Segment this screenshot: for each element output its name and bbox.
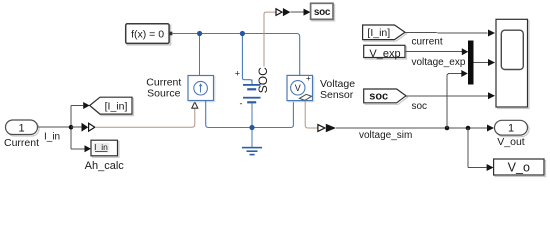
svg-text:soc: soc xyxy=(369,91,388,103)
svg-text:Ah_calc: Ah_calc xyxy=(85,160,125,172)
svg-text:voltage_exp: voltage_exp xyxy=(412,57,466,68)
svg-text:voltage_sim: voltage_sim xyxy=(359,130,412,141)
svg-text:+: + xyxy=(306,73,311,83)
svg-text:1: 1 xyxy=(18,122,24,134)
svg-text:f(x) = 0: f(x) = 0 xyxy=(131,28,164,40)
svg-text:-: - xyxy=(240,99,243,109)
svg-text:SOC: SOC xyxy=(256,67,270,93)
svg-text:I_in: I_in xyxy=(44,131,60,142)
svg-text:Source: Source xyxy=(147,88,180,100)
svg-text:[I_in]: [I_in] xyxy=(367,27,390,39)
svg-text:soc: soc xyxy=(314,7,331,18)
svg-text:V_out: V_out xyxy=(497,136,525,148)
svg-text:V_o: V_o xyxy=(508,161,530,175)
svg-text:Current: Current xyxy=(4,137,39,149)
svg-text:V_exp: V_exp xyxy=(369,48,400,60)
svg-text:[I_in]: [I_in] xyxy=(105,100,128,112)
svg-text:V: V xyxy=(295,83,301,93)
svg-text:+: + xyxy=(235,68,240,78)
svg-text:1: 1 xyxy=(508,123,514,135)
svg-text:I_in: I_in xyxy=(94,142,108,152)
svg-text:Sensor: Sensor xyxy=(320,89,354,101)
svg-text:soc: soc xyxy=(412,101,428,112)
svg-text:current: current xyxy=(412,37,443,48)
